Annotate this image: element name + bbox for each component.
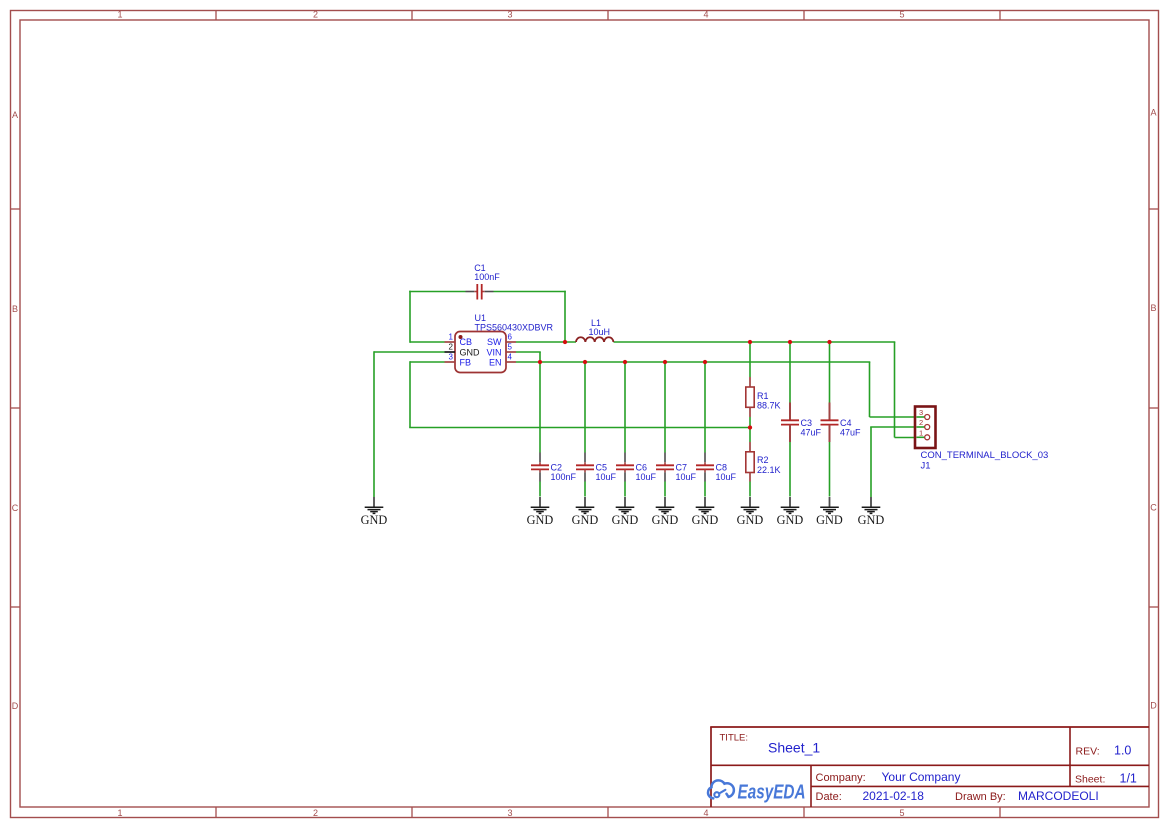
capacitor C3 47uF xyxy=(781,342,822,497)
svg-text:Company:: Company: xyxy=(816,772,866,784)
svg-text:D: D xyxy=(1150,701,1157,711)
ground at x=790 xyxy=(777,497,804,527)
svg-text:B: B xyxy=(1150,303,1156,313)
svg-text:MARCODEOLI: MARCODEOLI xyxy=(1018,789,1099,803)
svg-text:U1: U1 xyxy=(475,313,487,323)
capacitor C2 100nF xyxy=(531,362,577,497)
svg-text:C6: C6 xyxy=(636,463,648,473)
U1 pin1 CB xyxy=(445,333,473,348)
wire VIN pin5 to rail xyxy=(516,352,541,362)
svg-text:GND: GND xyxy=(692,513,719,527)
svg-text:2: 2 xyxy=(313,10,318,20)
svg-text:2: 2 xyxy=(919,418,923,427)
sheet cell xyxy=(1075,771,1137,785)
svg-text:A: A xyxy=(12,110,18,120)
svg-text:100nF: 100nF xyxy=(474,272,500,282)
svg-text:TPS560430XDBVR: TPS560430XDBVR xyxy=(475,322,554,332)
svg-text:C7: C7 xyxy=(676,463,688,473)
svg-text:R2: R2 xyxy=(757,455,769,465)
svg-text:4: 4 xyxy=(703,10,708,20)
svg-text:VIN: VIN xyxy=(486,347,501,357)
capacitor C6 10uF xyxy=(616,362,657,497)
svg-text:10uF: 10uF xyxy=(716,472,737,482)
svg-text:Sheet_1: Sheet_1 xyxy=(768,740,820,756)
junction at 625,362 xyxy=(623,360,627,364)
svg-text:4: 4 xyxy=(508,353,513,362)
wire FB pin3 to divider xyxy=(409,361,750,427)
capacitor C7 10uF xyxy=(656,362,697,497)
EasyEDA logo xyxy=(708,780,806,803)
ground at x=585 xyxy=(572,497,599,527)
svg-text:CON_TERMINAL_BLOCK_03: CON_TERMINAL_BLOCK_03 xyxy=(921,450,1049,461)
svg-text:C: C xyxy=(12,503,19,513)
svg-text:5: 5 xyxy=(508,343,513,352)
svg-text:1.0: 1.0 xyxy=(1114,743,1131,757)
svg-text:100nF: 100nF xyxy=(551,472,577,482)
svg-text:5: 5 xyxy=(899,10,904,20)
svg-text:2: 2 xyxy=(449,343,454,352)
svg-text:GND: GND xyxy=(527,513,554,527)
ground at x=625 xyxy=(612,497,639,527)
svg-text:GND: GND xyxy=(572,513,599,527)
junction at 665,362 xyxy=(663,360,667,364)
svg-text:88.7K: 88.7K xyxy=(757,401,781,411)
resistor R1 88.7K xyxy=(746,342,781,428)
svg-text:GND: GND xyxy=(858,513,885,527)
wire SW pin6 to L1 xyxy=(516,341,576,343)
svg-text:1: 1 xyxy=(117,808,122,818)
frame column labels bottom xyxy=(117,808,904,818)
U1 pin4 EN xyxy=(489,353,516,368)
svg-text:22.1K: 22.1K xyxy=(757,465,781,475)
capacitor C8 10uF xyxy=(696,362,737,497)
date row xyxy=(816,789,1099,803)
svg-text:GND: GND xyxy=(460,347,481,357)
wire VOUT net: L1 to J1 pin1 xyxy=(614,342,925,438)
capacitor C5 10uF xyxy=(576,362,617,497)
svg-text:B: B xyxy=(12,304,18,314)
frame row labels right xyxy=(1150,108,1157,711)
svg-text:3: 3 xyxy=(507,10,512,20)
svg-text:GND: GND xyxy=(777,513,804,527)
title text xyxy=(720,732,821,755)
svg-text:3: 3 xyxy=(449,353,454,362)
junction at 585,362 xyxy=(583,360,587,364)
op-amp U1 TPS560430XDBVR regulator xyxy=(455,313,554,373)
rev cell xyxy=(1076,743,1132,757)
svg-text:6: 6 xyxy=(508,333,513,342)
svg-text:GND: GND xyxy=(612,513,639,527)
svg-text:GND: GND xyxy=(652,513,679,527)
svg-text:Date:: Date: xyxy=(816,791,842,803)
ground at x=540 xyxy=(527,497,554,527)
connector J1 CON_TERMINAL_BLOCK_03 xyxy=(915,407,1048,472)
svg-text:D: D xyxy=(12,701,19,711)
svg-text:C2: C2 xyxy=(551,463,563,473)
capacitor C1 100nF xyxy=(466,263,501,300)
svg-text:1: 1 xyxy=(919,429,923,438)
U1 pin6 SW xyxy=(487,333,516,348)
svg-text:10uF: 10uF xyxy=(676,472,697,482)
svg-text:1: 1 xyxy=(117,10,122,20)
J1 pin 3 xyxy=(917,408,930,419)
svg-text:SW: SW xyxy=(487,337,502,347)
svg-text:GND: GND xyxy=(361,513,388,527)
ground at x=665 xyxy=(652,497,679,527)
inductor L1 10uH xyxy=(576,318,613,342)
company row xyxy=(816,770,961,784)
svg-text:3: 3 xyxy=(507,808,512,818)
U1 pin5 VIN xyxy=(486,343,516,358)
svg-text:10uF: 10uF xyxy=(596,472,617,482)
frame row labels left xyxy=(12,110,19,711)
svg-text:5: 5 xyxy=(899,808,904,818)
wire GND pin2 to ground xyxy=(374,351,445,497)
svg-text:GND: GND xyxy=(737,513,764,527)
junction at 705,362 xyxy=(703,360,707,364)
ground at x=750 xyxy=(737,497,764,527)
svg-text:C8: C8 xyxy=(716,463,728,473)
svg-text:2021-02-18: 2021-02-18 xyxy=(863,789,925,803)
frame column labels top xyxy=(117,10,904,20)
svg-text:EN: EN xyxy=(489,358,502,368)
svg-text:C4: C4 xyxy=(840,418,852,428)
junction at 750,342 xyxy=(748,340,752,344)
J1 pin 1 xyxy=(917,429,930,440)
svg-text:C: C xyxy=(1150,503,1157,513)
svg-text:C5: C5 xyxy=(596,463,608,473)
svg-text:1/1: 1/1 xyxy=(1120,771,1137,785)
junction at 790,342 xyxy=(788,340,792,344)
svg-text:47uF: 47uF xyxy=(801,428,822,438)
svg-text:1: 1 xyxy=(449,333,454,342)
junction at 540,362 xyxy=(538,360,542,364)
ground at x=871 xyxy=(858,497,885,527)
wire VIN/EN rail pin4 to J1 pin3 xyxy=(516,362,924,417)
svg-text:TITLE:: TITLE: xyxy=(720,732,749,743)
svg-text:47uF: 47uF xyxy=(840,428,861,438)
svg-text:FB: FB xyxy=(460,358,472,368)
svg-text:J1: J1 xyxy=(921,461,931,472)
ground at x=374 xyxy=(361,497,388,527)
svg-text:EasyEDA: EasyEDA xyxy=(738,781,806,803)
svg-text:C3: C3 xyxy=(801,418,813,428)
ground at x=829.5 xyxy=(816,497,843,527)
svg-text:Your Company: Your Company xyxy=(882,770,961,784)
junction at 829.5,342 xyxy=(827,340,831,344)
resistor R2 22.1K xyxy=(746,428,781,497)
svg-text:GND: GND xyxy=(816,513,843,527)
wire CB top loop (pin1 to C1 to SW junction) xyxy=(409,291,566,343)
svg-text:REV:: REV: xyxy=(1076,745,1100,757)
svg-text:Drawn By:: Drawn By: xyxy=(955,791,1006,803)
wire J1 pin2 to GND xyxy=(870,427,924,497)
svg-text:2: 2 xyxy=(313,808,318,818)
svg-text:A: A xyxy=(1150,108,1156,118)
U1 pin1 dot marker xyxy=(459,335,463,339)
svg-text:10uF: 10uF xyxy=(636,472,657,482)
junction at 750,427.5 xyxy=(748,425,752,429)
J1 pin 2 xyxy=(917,418,930,429)
svg-text:3: 3 xyxy=(919,408,923,417)
U1 pin2 GND xyxy=(445,343,481,358)
title block xyxy=(710,727,1149,807)
ground at x=705 xyxy=(692,497,719,527)
U1 pin3 FB xyxy=(445,353,472,368)
capacitor C4 47uF xyxy=(821,342,862,497)
svg-text:4: 4 xyxy=(703,808,708,818)
junction at 565,342 xyxy=(563,340,567,344)
svg-text:Sheet:: Sheet: xyxy=(1075,773,1105,785)
svg-text:10uH: 10uH xyxy=(589,327,611,337)
svg-text:R1: R1 xyxy=(757,391,769,401)
